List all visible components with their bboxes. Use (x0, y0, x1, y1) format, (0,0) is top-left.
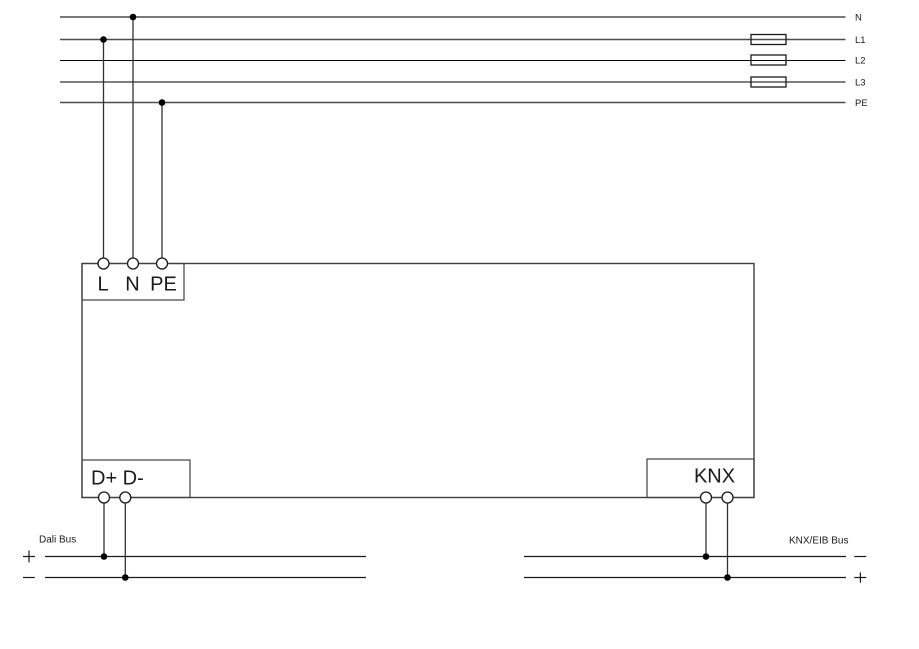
polarity minus knx (854, 556, 866, 558)
terminal pin D+ (99, 492, 110, 503)
svg-text:PE: PE (150, 273, 177, 295)
terminal block L N PE (82, 264, 184, 301)
svg-text:L3: L3 (855, 78, 866, 89)
terminal pin L (98, 258, 109, 269)
wire L2 mains line (60, 60, 846, 62)
wire dali bus plus line (45, 556, 366, 558)
polarity minus dali (23, 577, 35, 579)
polarity plus dali (23, 551, 35, 563)
svg-text:N: N (855, 13, 862, 24)
wire PE mains line (60, 102, 846, 104)
terminal pin D- (120, 492, 131, 503)
terminal pin PE (157, 258, 168, 269)
svg-text:PE: PE (855, 98, 868, 109)
wire drop from PE to terminal PE (161, 103, 163, 259)
fuse F2 on L2 (751, 55, 786, 65)
node junction on N line (130, 14, 137, 21)
node junction D- on dali bus (122, 574, 129, 581)
wire L1 mains line (60, 39, 846, 41)
wire KNX- to knx bus (727, 503, 729, 578)
wire dali bus minus line (45, 577, 366, 579)
wire drop from N to terminal N (132, 17, 134, 259)
fuse F3 on L3 (751, 77, 786, 87)
wire L3 mains line (60, 81, 846, 83)
terminal block KNX (647, 459, 754, 498)
terminal block D+ D- (82, 460, 190, 498)
svg-text:L: L (97, 273, 108, 295)
wire D- to dali bus (124, 503, 126, 578)
terminal pin KNX- (722, 492, 733, 503)
wire D+ to dali bus (103, 503, 105, 557)
svg-text:KNX/EIB Bus: KNX/EIB Bus (789, 536, 848, 547)
svg-text:KNX: KNX (694, 466, 735, 488)
fuse F1 on L1 (751, 35, 786, 45)
node junction KNX on knx bus (703, 553, 710, 560)
node junction on PE line (159, 99, 166, 106)
wire knx bus plus line (524, 577, 846, 579)
svg-text:N: N (125, 273, 139, 295)
wire KNX+ to knx bus (705, 503, 707, 557)
wire drop from L1 to terminal L (103, 40, 105, 259)
polarity plus knx (854, 572, 866, 582)
wire N mains line (60, 16, 846, 18)
node junction on L1 line (100, 36, 107, 43)
svg-text:L2: L2 (855, 56, 866, 67)
node junction KNX on knx bus minus (724, 574, 731, 581)
device box DALI/KNX gateway U1 (82, 264, 754, 498)
terminal pin N (128, 258, 139, 269)
terminal pin KNX+ (701, 492, 712, 503)
svg-text:L1: L1 (855, 35, 866, 46)
node junction D+ on dali bus (101, 553, 108, 560)
wire knx bus minus line (524, 556, 846, 558)
svg-text:Dali Bus: Dali Bus (39, 535, 76, 546)
svg-text:D+ D-: D+ D- (91, 467, 144, 489)
